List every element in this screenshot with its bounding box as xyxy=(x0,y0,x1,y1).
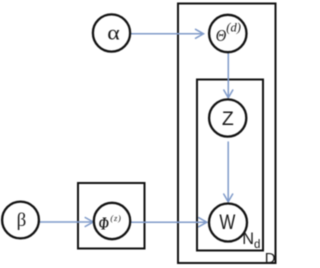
svg-text:N: N xyxy=(242,230,254,248)
svg-text:β: β xyxy=(17,210,27,231)
svg-text:(z): (z) xyxy=(110,213,121,223)
svg-text:d: d xyxy=(254,239,260,251)
svg-text:Θ: Θ xyxy=(216,26,227,45)
svg-text:D: D xyxy=(265,251,276,267)
svg-text:α: α xyxy=(107,20,120,44)
svg-text:Z: Z xyxy=(222,108,234,130)
svg-text:(d): (d) xyxy=(226,21,241,35)
svg-text:W: W xyxy=(219,211,235,234)
svg-text:Φ: Φ xyxy=(99,214,109,234)
